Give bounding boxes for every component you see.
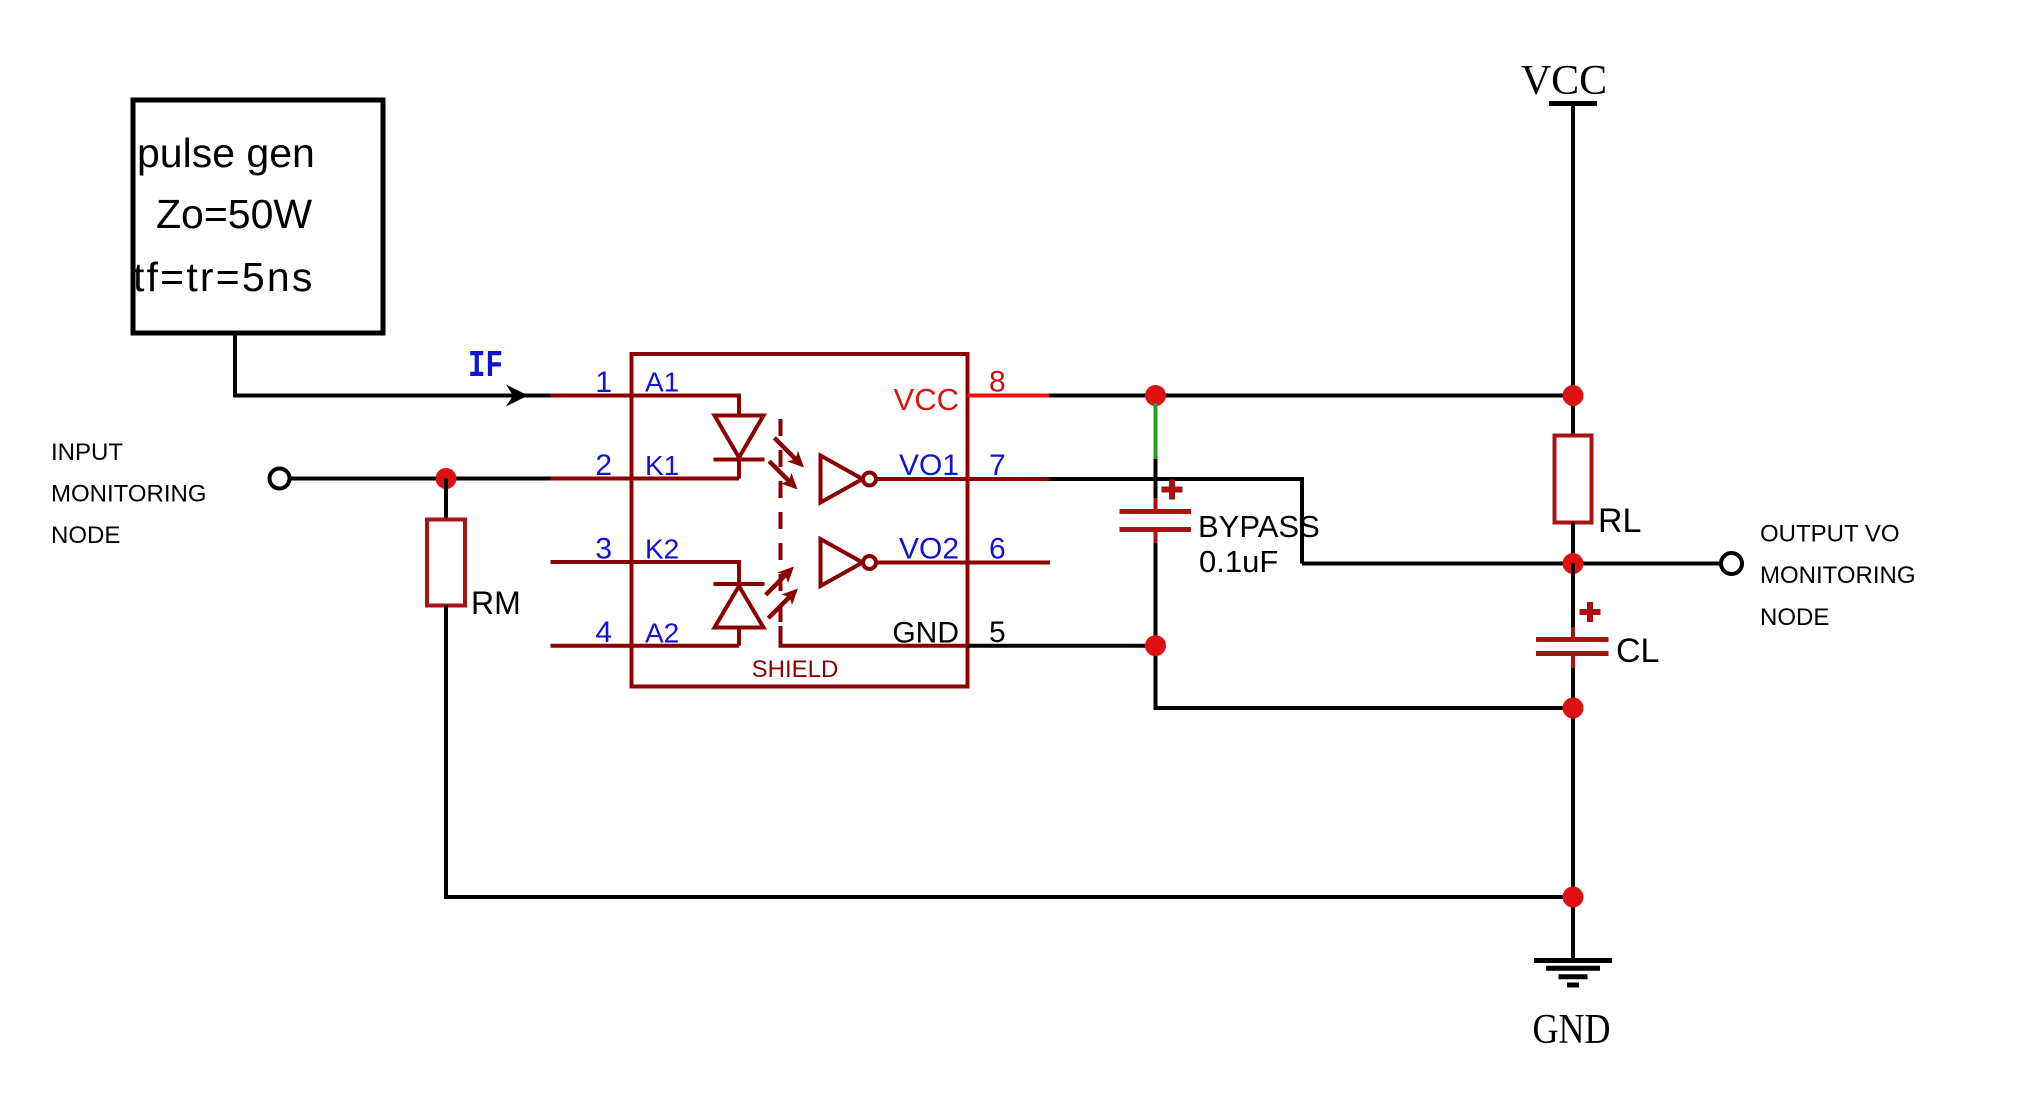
wire bypass bottom to gnd row [1156, 543, 1574, 708]
svg-text:RL: RL [1598, 502, 1641, 540]
wire pulse gen to pin 1 [235, 333, 551, 396]
shield to GND pin 5 inner wire [781, 626, 968, 646]
svg-text:A1: A1 [645, 367, 679, 398]
svg-text:K2: K2 [645, 534, 679, 565]
D2 emission arrow a [760, 561, 799, 600]
svg-text:BYPASS: BYPASS [1198, 509, 1320, 544]
svg-text:4: 4 [595, 616, 612, 649]
svg-text:IF: IF [468, 345, 503, 388]
svg-text:MONITORING: MONITORING [51, 481, 207, 508]
junction output node [1563, 553, 1584, 574]
svg-text:GND: GND [1533, 1007, 1611, 1053]
svg-text:0.1uF: 0.1uF [1199, 544, 1278, 579]
svg-text:MONITORING: MONITORING [1760, 562, 1916, 589]
svg-text:tf=tr=5ns: tf=tr=5ns [133, 254, 315, 300]
output node horizontal wire [1302, 562, 1720, 566]
svg-text:VCC: VCC [894, 382, 959, 417]
junction input/RM [436, 468, 457, 489]
pin 1 stub A1 [551, 396, 740, 416]
output terminal circle [1721, 553, 1742, 574]
inverter U1b [821, 539, 968, 586]
pulse generator box [133, 100, 383, 333]
shield dashed line [779, 419, 783, 626]
junction RM return [1563, 887, 1584, 908]
svg-text:INPUT: INPUT [51, 439, 123, 466]
junction VCC rail / RL [1563, 385, 1584, 406]
svg-text:SHIELD: SHIELD [752, 656, 839, 683]
inverter U1a [821, 456, 968, 503]
wire output node down to CL [1571, 564, 1575, 628]
svg-text:CL: CL [1616, 632, 1659, 670]
D1 emission arrow b [764, 456, 803, 495]
capacitor CL [1536, 602, 1659, 670]
svg-text:RM: RM [471, 585, 521, 621]
svg-text:K1: K1 [645, 450, 679, 481]
wire CL bottom to ground [1571, 668, 1575, 959]
IC body [632, 354, 968, 687]
junction pin5/bypass [1145, 635, 1166, 656]
pin 8 stub red [968, 394, 1050, 398]
LED D1 (A1-K1) [714, 416, 765, 479]
capacitor BYPASS [1120, 480, 1320, 580]
pin 2 stub K1 [551, 477, 740, 481]
wire RL bottom [1571, 523, 1575, 564]
svg-text:pulse gen: pulse gen [137, 130, 315, 176]
node INPUT MONITORING NODE terminal [270, 469, 290, 489]
green wire segment [1154, 403, 1158, 459]
pin 7 stub [968, 477, 1050, 481]
svg-text:VO2: VO2 [899, 533, 959, 566]
svg-text:GND: GND [892, 617, 959, 650]
LED D2 (K2-A2) [714, 584, 765, 646]
ground symbol [1534, 961, 1612, 986]
svg-text:3: 3 [595, 533, 612, 566]
wire RM top [444, 479, 448, 520]
pin 5 wire to bypass branch [968, 644, 1156, 648]
svg-text:NODE: NODE [1760, 604, 1829, 631]
svg-text:NODE: NODE [51, 522, 120, 549]
resistor RL [1555, 436, 1592, 523]
svg-text:VCC: VCC [1521, 58, 1607, 104]
pin 4 stub A2 [551, 644, 740, 648]
svg-text:2: 2 [595, 449, 612, 482]
wire green to bypass cap [1154, 459, 1158, 498]
svg-text:VO1: VO1 [899, 449, 959, 482]
svg-text:OUTPUT VO: OUTPUT VO [1760, 521, 1900, 548]
IF current arrow [506, 385, 528, 407]
D2 emission arrow b [763, 583, 803, 623]
pin 6 stub [968, 561, 1051, 565]
svg-text:Zo=50W: Zo=50W [156, 191, 312, 237]
wire pin8 to VCC rail [1049, 394, 1573, 398]
wire VO1 to output node [1049, 479, 1302, 564]
svg-text:1: 1 [595, 366, 612, 399]
VCC supply symbol [1521, 58, 1607, 436]
junction VCC/bypass [1145, 385, 1166, 406]
junction CL/bypass return [1563, 698, 1584, 719]
wire input node to pin 2 [290, 477, 551, 481]
wire RM bottom to ground rail [446, 606, 1573, 898]
svg-text:A2: A2 [645, 618, 679, 649]
resistor RM [427, 520, 465, 606]
D1 emission arrow a [769, 432, 809, 472]
pin 3 stub K2 [551, 562, 740, 584]
